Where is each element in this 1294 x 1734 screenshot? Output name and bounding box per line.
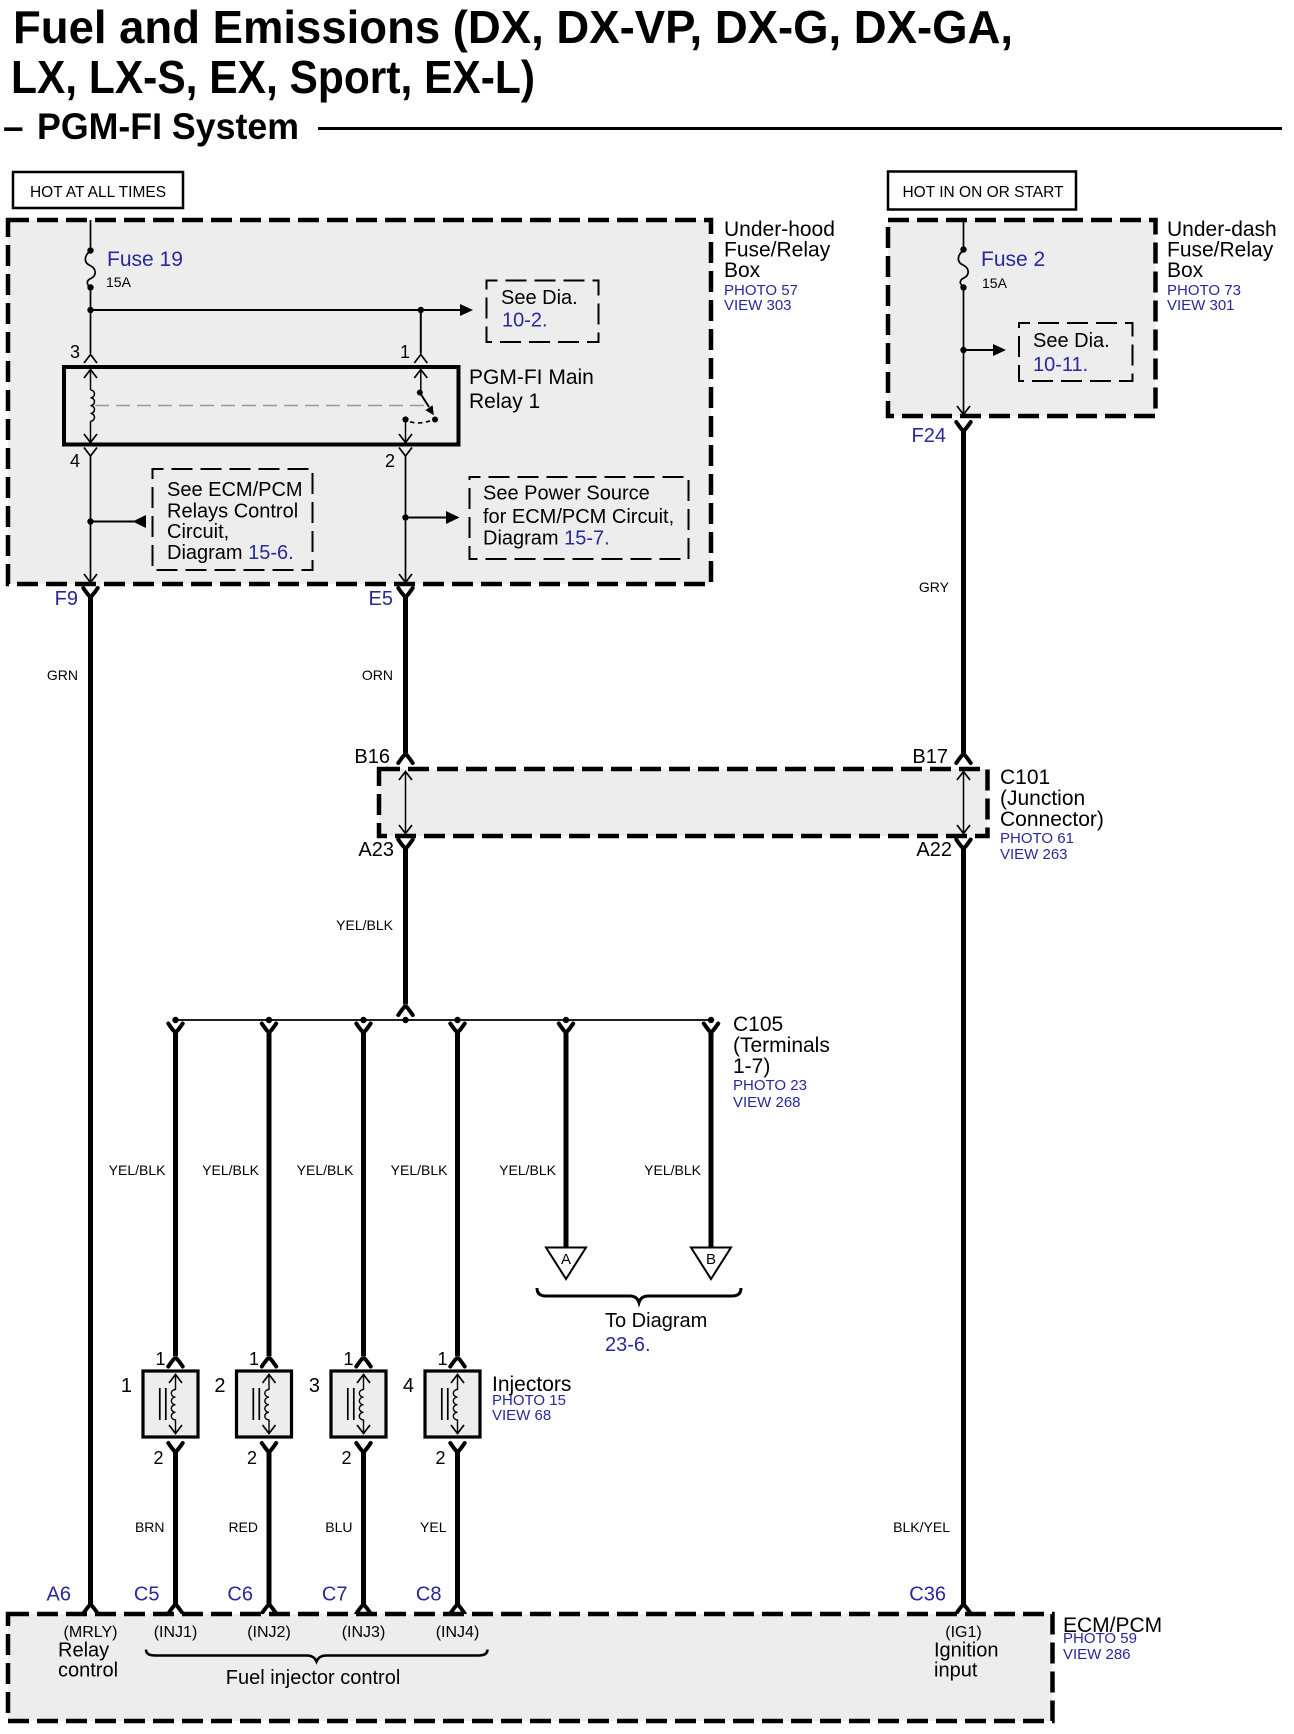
svg-text:PHOTO 23: PHOTO 23 xyxy=(733,1077,807,1094)
ECM/PCM label xyxy=(1063,1614,1162,1663)
node: C105 terminal 1 xyxy=(172,1017,178,1023)
See ECM/PCM relays control reference box xyxy=(153,469,313,570)
C101 internal arrow left xyxy=(399,772,412,834)
svg-text:See Power Source: See Power Source xyxy=(483,483,650,505)
injectors label xyxy=(492,1373,571,1424)
svg-text:Diagram 15-6.: Diagram 15-6. xyxy=(167,542,294,564)
svg-text:PGM-FI System: PGM-FI System xyxy=(37,106,299,147)
injector 2 terminal top xyxy=(262,1358,276,1366)
node: dia 10-11 branch xyxy=(960,347,966,353)
svg-text:3: 3 xyxy=(70,342,80,362)
node: C105 terminal 6 xyxy=(708,1017,714,1023)
injector 3 terminal top xyxy=(356,1358,370,1366)
svg-text:BLK/YEL: BLK/YEL xyxy=(893,1519,950,1535)
svg-text:Diagram 15-7.: Diagram 15-7. xyxy=(483,528,610,550)
svg-text:To Diagram: To Diagram xyxy=(605,1310,707,1332)
svg-text:PGM-FI Main: PGM-FI Main xyxy=(469,366,594,389)
svg-text:GRY: GRY xyxy=(919,579,950,595)
C7 terminal xyxy=(356,1605,370,1613)
A6 terminal xyxy=(83,1605,97,1613)
injector 2 internal wire xyxy=(263,1374,276,1434)
svg-text:A23: A23 xyxy=(358,839,394,861)
wire: box top to fuse 2 xyxy=(963,220,965,250)
injector 1 terminal top xyxy=(168,1358,182,1366)
relay pin 3 internal arrow xyxy=(84,370,97,379)
svg-text:(INJ1): (INJ1) xyxy=(154,1624,198,1641)
svg-text:YEL/BLK: YEL/BLK xyxy=(336,917,393,933)
svg-text:RED: RED xyxy=(228,1519,258,1535)
injector 3 box xyxy=(331,1371,386,1437)
PGM-FI main relay 1 box xyxy=(64,367,459,445)
relay coil wire lower xyxy=(90,421,92,442)
MRLY pin function xyxy=(58,1624,118,1682)
under-dash fuse/relay box label xyxy=(1167,218,1277,314)
svg-text:Box: Box xyxy=(1167,259,1204,282)
C105 bus wire xyxy=(176,1019,712,1021)
svg-text:Fuel injector control: Fuel injector control xyxy=(226,1667,401,1689)
svg-text:1: 1 xyxy=(249,1349,259,1369)
svg-text:ORN: ORN xyxy=(362,667,393,683)
svg-text:YEL/BLK: YEL/BLK xyxy=(202,1162,259,1178)
pin 4 terminal xyxy=(84,448,97,457)
relay coil xyxy=(91,390,95,421)
svg-text:B16: B16 xyxy=(354,746,390,768)
injector 4 box xyxy=(425,1371,480,1437)
title xyxy=(3,1,1013,147)
svg-text:C8: C8 xyxy=(416,1584,442,1606)
svg-text:F9: F9 xyxy=(55,588,78,610)
C101 internal arrow right xyxy=(957,772,970,834)
svg-text:Connector): Connector) xyxy=(1000,808,1104,831)
relay switch xyxy=(402,390,438,423)
svg-text:4: 4 xyxy=(70,451,80,471)
svg-text:YEL/BLK: YEL/BLK xyxy=(644,1162,701,1178)
svg-text:HOT IN ON OR START: HOT IN ON OR START xyxy=(902,184,1064,201)
svg-text:GRN: GRN xyxy=(47,667,78,683)
injector 4 terminal top xyxy=(450,1358,464,1366)
svg-text:VIEW 268: VIEW 268 xyxy=(733,1094,801,1111)
svg-text:See Dia.: See Dia. xyxy=(1033,330,1110,352)
under-dash fuse/relay box xyxy=(888,220,1156,416)
IG1 pin function xyxy=(934,1624,999,1682)
ref triangle A xyxy=(546,1248,586,1280)
under-hood fuse/relay box label xyxy=(724,218,835,314)
svg-text:YEL/BLK: YEL/BLK xyxy=(297,1162,354,1178)
injector 3 coil xyxy=(359,1390,363,1420)
wire: box top to fuse 19 xyxy=(90,220,92,251)
pin 2 terminal xyxy=(399,448,412,457)
wire: junction to F24 xyxy=(963,350,965,414)
wire YEL/BLK to ref A xyxy=(564,1031,569,1247)
arrowhead into See Dia 10-11 xyxy=(993,344,1006,356)
arrowhead from relays control ref xyxy=(133,515,147,528)
svg-text:See ECM/PCM: See ECM/PCM xyxy=(167,479,303,501)
See Power Source reference box xyxy=(470,477,689,559)
C36 terminal xyxy=(956,1605,970,1613)
svg-text:15A: 15A xyxy=(106,274,132,290)
svg-text:YEL/BLK: YEL/BLK xyxy=(391,1162,448,1178)
C5 terminal xyxy=(168,1605,182,1613)
svg-text:C101: C101 xyxy=(1000,766,1050,789)
C101 junction connector box xyxy=(379,769,988,836)
wire YEL/BLK A23 to C105 xyxy=(403,847,408,1005)
injector 3 flow bars xyxy=(348,1388,354,1420)
injector 2 terminal bottom xyxy=(262,1443,276,1451)
svg-text:10-11.: 10-11. xyxy=(1033,354,1088,376)
See Dia. 10-11 reference box xyxy=(1019,323,1133,381)
svg-text:C36: C36 xyxy=(909,1584,946,1606)
E5 terminal xyxy=(398,588,412,596)
injector 4 terminal bottom xyxy=(450,1443,464,1451)
C105 feed terminal xyxy=(398,1007,412,1015)
wire YEL/BLK to injector 1 xyxy=(173,1031,178,1356)
svg-text:2: 2 xyxy=(435,1448,445,1468)
svg-text:1: 1 xyxy=(343,1349,353,1369)
fuse 19 xyxy=(85,247,183,290)
wire BRN injector 1 to C5 xyxy=(173,1451,178,1605)
svg-text:Box: Box xyxy=(724,259,761,282)
svg-text:YEL/BLK: YEL/BLK xyxy=(109,1162,166,1178)
wire: fuse 19 to junction xyxy=(90,288,92,311)
injector 1 coil xyxy=(171,1390,175,1420)
injector 2 box xyxy=(237,1371,292,1437)
svg-text:Ignition: Ignition xyxy=(934,1640,999,1662)
svg-text:2: 2 xyxy=(247,1448,257,1468)
svg-text:See Dia.: See Dia. xyxy=(501,287,578,309)
svg-text:–: – xyxy=(3,106,24,147)
svg-text:A6: A6 xyxy=(47,1584,71,1606)
relay pin 1 internal arrow xyxy=(414,370,427,379)
relay coil wire xyxy=(90,371,92,390)
svg-text:2: 2 xyxy=(341,1448,351,1468)
svg-text:(INJ2): (INJ2) xyxy=(247,1624,291,1641)
wire: pin 4 to F9 xyxy=(90,456,92,581)
arrowhead into power source ref xyxy=(446,511,460,524)
svg-text:control: control xyxy=(58,1660,118,1682)
injector 1 box xyxy=(143,1371,198,1437)
relay pin 2 internal wire xyxy=(405,420,407,443)
title rule xyxy=(318,127,1282,130)
svg-text:B: B xyxy=(706,1251,716,1268)
svg-text:Fuse 19: Fuse 19 xyxy=(107,248,183,271)
wire YEL/BLK to ref B xyxy=(709,1031,714,1247)
svg-text:(IG1): (IG1) xyxy=(945,1624,981,1641)
svg-text:input: input xyxy=(934,1660,978,1682)
svg-text:(Terminals: (Terminals xyxy=(733,1034,830,1057)
node: C105 terminal 2 xyxy=(266,1017,272,1023)
svg-text:C5: C5 xyxy=(134,1584,160,1606)
wire: junction to relay pin 1 xyxy=(420,310,422,354)
F9 terminal xyxy=(83,588,97,596)
svg-text:C6: C6 xyxy=(227,1584,253,1606)
svg-text:2: 2 xyxy=(385,451,395,471)
svg-text:(INJ4): (INJ4) xyxy=(436,1624,480,1641)
wire: fuse 2 to junction xyxy=(963,288,965,351)
svg-text:VIEW 301: VIEW 301 xyxy=(1167,297,1235,314)
svg-text:Fuel and Emissions (DX, DX-VP,: Fuel and Emissions (DX, DX-VP, DX-G, DX-… xyxy=(13,1,1013,53)
terminal 1 caret xyxy=(168,1024,182,1032)
wire to See Dia 10-2 xyxy=(91,309,463,311)
svg-text:2: 2 xyxy=(214,1375,225,1397)
node: C105 terminal 5 xyxy=(563,1017,569,1023)
injector 2 coil xyxy=(265,1390,269,1420)
C105 label xyxy=(733,1013,830,1111)
F24 terminal xyxy=(956,422,970,430)
See Dia. 10-2 reference box xyxy=(487,281,599,343)
svg-text:E5: E5 xyxy=(369,588,393,610)
injector 3 terminal bottom xyxy=(356,1443,370,1451)
wire YEL injector 4 to C8 xyxy=(455,1451,460,1605)
wire RED injector 2 to C6 xyxy=(267,1451,272,1605)
node: C105 terminal 4 xyxy=(454,1017,460,1023)
terminal 6 caret xyxy=(704,1024,718,1032)
injector 2 flow bars xyxy=(253,1388,259,1420)
svg-text:Fuse 2: Fuse 2 xyxy=(981,248,1045,271)
injector 1 terminal bottom xyxy=(168,1443,182,1451)
svg-text:C105: C105 xyxy=(733,1013,783,1036)
terminal 2 caret xyxy=(262,1024,276,1032)
svg-text:BLU: BLU xyxy=(325,1519,352,1535)
C101 label xyxy=(1000,766,1104,863)
svg-text:VIEW 263: VIEW 263 xyxy=(1000,846,1068,863)
to diagram brace xyxy=(537,1288,741,1303)
wire to relays control ref xyxy=(91,521,135,523)
ref triangle B xyxy=(691,1248,731,1280)
HOT IN ON OR START label xyxy=(888,172,1076,210)
injector 1 internal wire xyxy=(169,1374,182,1434)
node: fuse19/dia10-2 junction xyxy=(87,307,93,313)
node: pin1 branch junction xyxy=(418,307,424,313)
svg-text:15A: 15A xyxy=(982,275,1008,291)
svg-text:for ECM/PCM Circuit,: for ECM/PCM Circuit, xyxy=(483,506,674,528)
svg-text:Relay: Relay xyxy=(58,1640,109,1662)
wire BLU injector 3 to C7 xyxy=(361,1451,366,1605)
svg-text:F24: F24 xyxy=(912,425,946,447)
wire YEL/BLK to injector 4 xyxy=(455,1031,460,1356)
relay actuation dashed link xyxy=(95,405,424,407)
wire YEL/BLK to injector 2 xyxy=(267,1031,272,1356)
injector 4 flow bars xyxy=(442,1388,448,1420)
svg-text:3: 3 xyxy=(309,1375,320,1397)
relay pin 4 internal arrow xyxy=(84,434,97,443)
F24 border exit arrow xyxy=(957,406,970,415)
B17 terminal xyxy=(956,755,970,763)
node: power source branch xyxy=(402,514,408,520)
relay pin 2 internal arrow xyxy=(399,434,412,443)
fuse 2 xyxy=(958,246,1045,291)
svg-text:PHOTO 61: PHOTO 61 xyxy=(1000,830,1074,847)
to diagram label xyxy=(605,1310,707,1356)
B16 terminal xyxy=(398,755,412,763)
svg-text:1-7): 1-7) xyxy=(733,1055,770,1078)
A23 terminal xyxy=(398,840,412,848)
terminal 4 caret xyxy=(450,1024,464,1032)
wire to power source ref xyxy=(406,517,449,519)
under-hood fuse/relay box xyxy=(8,220,711,584)
svg-text:(INJ3): (INJ3) xyxy=(342,1624,386,1641)
arrowhead into See Dia 10-2 xyxy=(460,304,473,316)
HOT AT ALL TIMES label xyxy=(13,172,183,208)
node: C105 terminal 3 xyxy=(360,1017,366,1023)
wire YEL/BLK to injector 3 xyxy=(361,1031,366,1356)
svg-text:B17: B17 xyxy=(912,746,948,768)
svg-text:A22: A22 xyxy=(916,839,952,861)
svg-text:1: 1 xyxy=(155,1349,165,1369)
injector 4 internal wire xyxy=(451,1374,464,1434)
wire: junction to relay pin 3 xyxy=(90,310,92,354)
svg-text:2: 2 xyxy=(153,1448,163,1468)
pin 1 terminal xyxy=(414,355,427,364)
svg-text:YEL/BLK: YEL/BLK xyxy=(499,1162,556,1178)
svg-text:(MRLY): (MRLY) xyxy=(64,1624,118,1641)
svg-text:C7: C7 xyxy=(322,1584,348,1606)
wire: pin 2 to E5 xyxy=(405,456,407,581)
svg-text:Relays Control: Relays Control xyxy=(167,501,298,523)
svg-text:A: A xyxy=(561,1251,571,1268)
F9 border exit arrow xyxy=(84,574,97,583)
svg-text:LX, LX-S, EX, Sport, EX-L): LX, LX-S, EX, Sport, EX-L) xyxy=(11,51,535,103)
wire BLK/YEL A22 to C36 xyxy=(961,847,966,1604)
node: C105 feed xyxy=(402,1017,408,1023)
injector 4 coil xyxy=(453,1390,457,1420)
wire GRN F9 to A6 xyxy=(88,596,93,1605)
svg-text:4: 4 xyxy=(403,1375,414,1397)
relay pin 1 internal wire xyxy=(420,371,422,393)
svg-text:1: 1 xyxy=(121,1375,132,1397)
svg-text:VIEW 286: VIEW 286 xyxy=(1063,1646,1131,1663)
C6 terminal xyxy=(262,1605,276,1613)
svg-text:VIEW 303: VIEW 303 xyxy=(724,297,792,314)
wire ORN E5 to B16 xyxy=(403,596,408,754)
svg-text:23-6.: 23-6. xyxy=(605,1334,651,1356)
svg-text:YEL: YEL xyxy=(420,1519,447,1535)
svg-text:Relay 1: Relay 1 xyxy=(469,390,540,413)
A22 terminal xyxy=(956,840,970,848)
svg-text:VIEW 68: VIEW 68 xyxy=(492,1407,551,1424)
wire GRY F24 to B17 xyxy=(961,430,966,754)
svg-text:1: 1 xyxy=(437,1349,447,1369)
injector 3 internal wire xyxy=(357,1374,370,1434)
svg-text:(Junction: (Junction xyxy=(1000,787,1085,810)
wire to See Dia 10-11 xyxy=(964,349,994,351)
fuel injector control brace xyxy=(146,1650,488,1662)
PGM-FI main relay 1 label xyxy=(469,366,594,413)
node: relay control branch xyxy=(87,518,93,524)
E5 border exit arrow xyxy=(399,574,412,583)
terminal 3 caret xyxy=(356,1024,370,1032)
terminal 5 caret xyxy=(559,1024,573,1032)
pin 3 terminal xyxy=(84,355,97,364)
svg-text:1: 1 xyxy=(400,342,410,362)
svg-text:BRN: BRN xyxy=(135,1519,165,1535)
svg-text:10-2.: 10-2. xyxy=(502,310,548,332)
svg-text:PHOTO 59: PHOTO 59 xyxy=(1063,1630,1137,1647)
ECM/PCM box xyxy=(8,1614,1053,1721)
svg-text:HOT AT ALL TIMES: HOT AT ALL TIMES xyxy=(30,184,166,201)
svg-text:Circuit,: Circuit, xyxy=(167,521,229,543)
injector 1 flow bars xyxy=(160,1388,166,1420)
C8 terminal xyxy=(450,1605,464,1613)
